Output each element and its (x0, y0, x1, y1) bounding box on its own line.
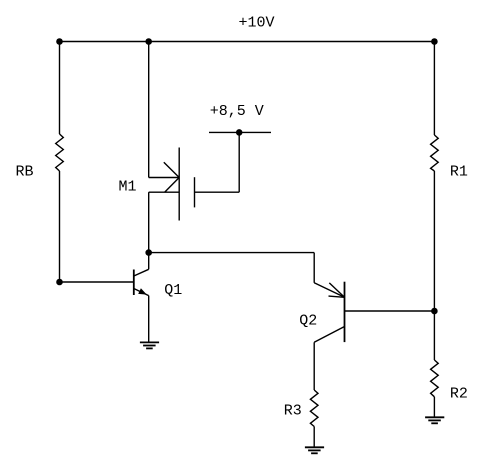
transistor Q2 emitter arrow barb upper (329, 283, 344, 297)
transistor Q2 emitter arrow barb lower (329, 296, 345, 297)
svg-text:R3: R3 (284, 402, 302, 419)
wire right vertical middle (433, 171, 435, 360)
svg-text:+10V: +10V (239, 15, 275, 32)
transistor Q1 collector diagonal (134, 269, 149, 276)
transistor Q2 base bar (344, 282, 346, 342)
mosfet M1 arrow upper barb (164, 162, 179, 177)
wire Q2 base (345, 310, 435, 312)
transistor Q1 base bar (133, 270, 135, 296)
resistor R1 (431, 135, 439, 171)
transistor Q2 emitter diagonal (314, 283, 344, 298)
node junction R1 R2 Q2 base (432, 308, 437, 313)
svg-text:RB: RB (16, 164, 34, 181)
wire Q1 base (60, 281, 134, 283)
mosfet M1 arrow lower barb (165, 178, 180, 193)
resistor R3 (310, 390, 318, 427)
svg-text:M1: M1 (119, 179, 137, 196)
wire M1 gate horizontal (195, 191, 240, 193)
wire left vertical upper (59, 42, 61, 135)
mosfet M1 drain horizontal (149, 177, 180, 179)
wire R2 vertical lower (433, 397, 435, 418)
transistor Q1 emitter diagonal (134, 289, 149, 296)
svg-text:Q2: Q2 (299, 313, 317, 330)
node junction +8.5V (237, 130, 242, 135)
mosfet M1 gate bar (194, 177, 196, 207)
mosfet M1 channel bar (178, 148, 180, 221)
node junction top-right (432, 39, 437, 44)
ground R2 (425, 417, 444, 423)
wire Q1 collector vertical (148, 192, 150, 269)
wire Q1 emitter vertical (148, 296, 150, 343)
wire R3 vertical lower (313, 427, 315, 448)
transistor Q1 emitter arrow (138, 288, 147, 294)
wire M1 drain vertical (148, 42, 150, 178)
wire right vertical upper (433, 42, 435, 136)
node junction Q1 collector (146, 250, 151, 255)
resistor RB (56, 134, 64, 171)
node junction top-left (57, 39, 62, 44)
wire Q1 collector to Q2 emitter horizontal (149, 252, 315, 254)
node junction top-middle (146, 39, 151, 44)
svg-text:R1: R1 (450, 163, 468, 180)
svg-text:R2: R2 (450, 386, 468, 403)
svg-text:+8,5 V: +8,5 V (210, 103, 264, 120)
resistor R2 (431, 360, 439, 397)
wire +8.5V rail (209, 131, 271, 133)
wire left vertical lower (59, 171, 61, 282)
ground Q1 (140, 342, 159, 348)
transistor Q2 collector diagonal (314, 327, 344, 343)
svg-text:Q1: Q1 (164, 282, 182, 299)
wire +10V top rail (60, 41, 435, 43)
node junction base (57, 279, 62, 284)
mosfet M1 source horizontal (149, 191, 180, 193)
wire Q2 emitter vertical (313, 253, 315, 283)
ground R3 (305, 447, 324, 453)
wire R3 vertical upper (313, 342, 315, 390)
wire M1 gate vertical (238, 132, 240, 192)
